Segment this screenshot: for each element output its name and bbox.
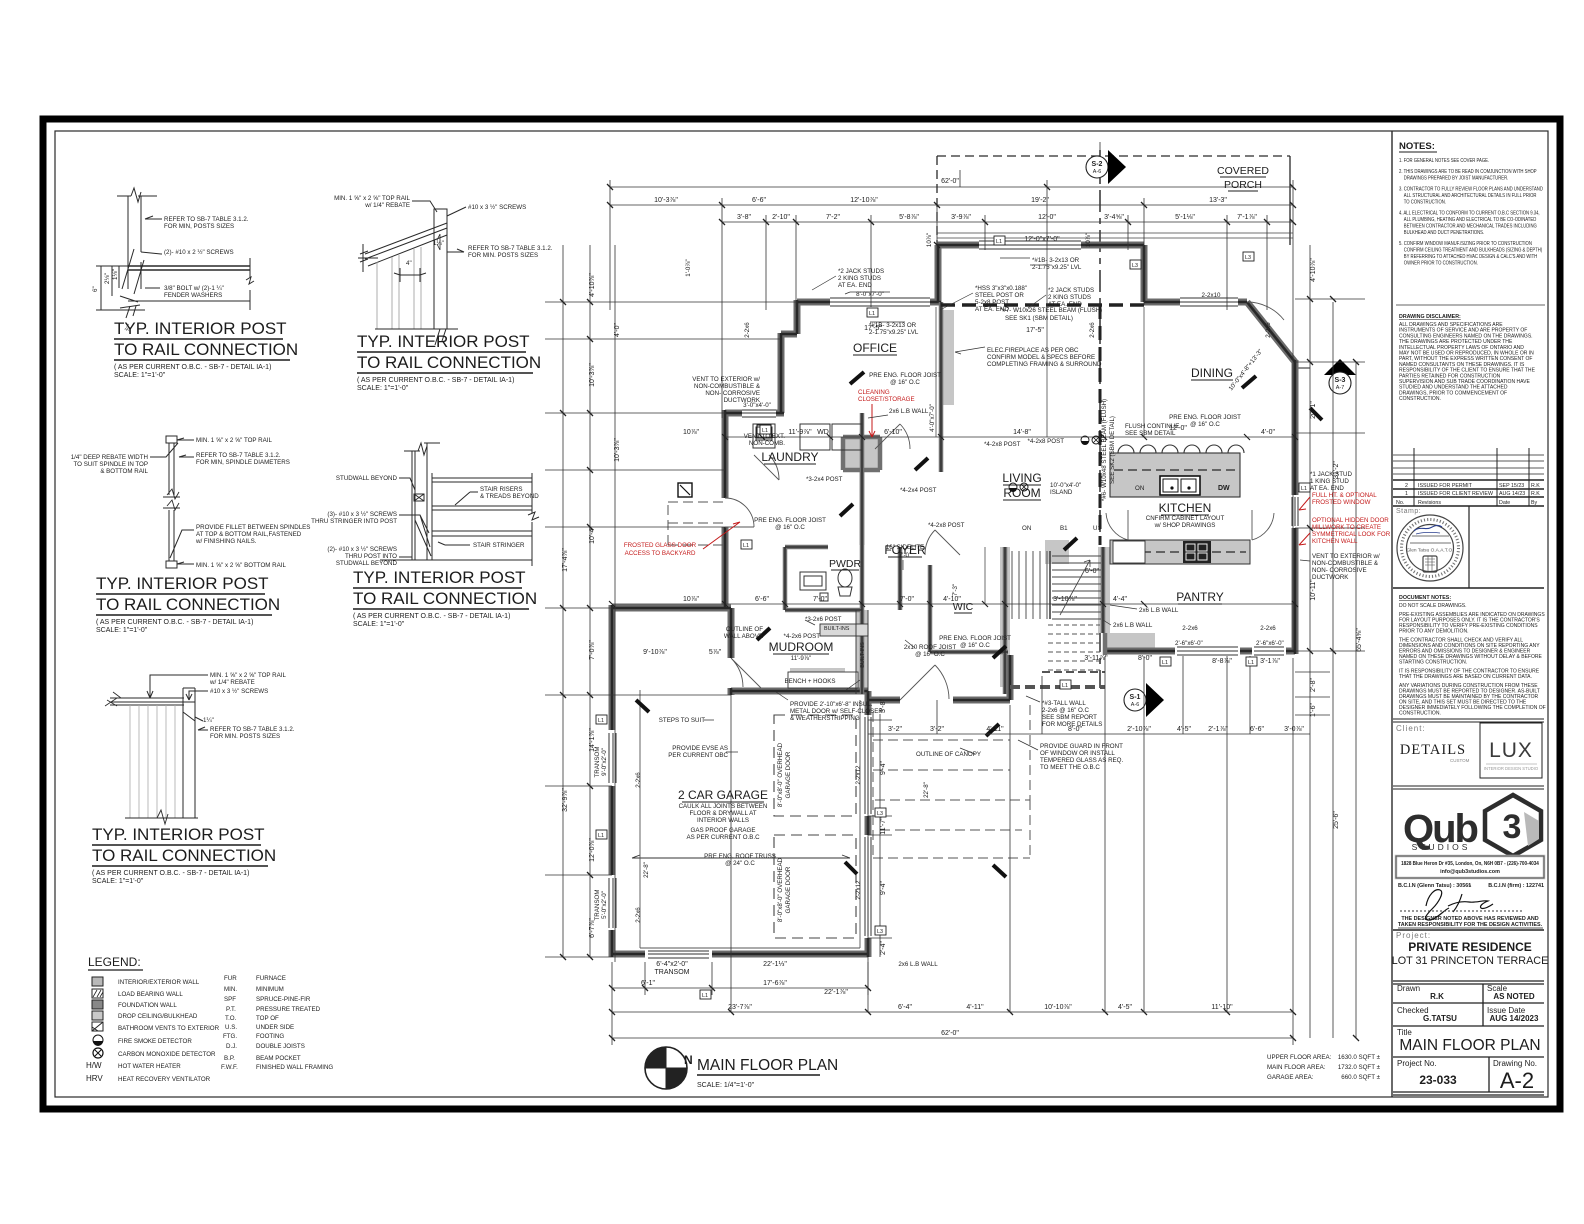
svg-text:F.W.F.: F.W.F. [221,1064,238,1071]
joist direction arrows [636,372,1322,877]
svg-text:NON-COMB.: NON-COMB. [749,440,785,447]
svg-text:P.T.: P.T. [226,1006,236,1013]
svg-text:LOAD BEARING WALL: LOAD BEARING WALL [118,991,183,998]
svg-text:ALL STRUCTURAL AND ARCHITECTUR: ALL STRUCTURAL AND ARCHITECTURAL DETAILS… [1404,193,1537,200]
svg-text:S-2: S-2 [1092,161,1103,168]
interior dim lines [612,245,1295,604]
svg-text:10⅞": 10⅞" [1085,233,1092,247]
svg-text:( AS PER CURRENT O.B.C. - SB-7: ( AS PER CURRENT O.B.C. - SB-7 - DETAIL … [353,613,510,620]
svg-text:*1 JACK STUD: *1 JACK STUD [1310,471,1352,478]
svg-text:2: 2 [1405,483,1408,489]
svg-text:REFER TO SB-7 TABLE 3.1.2.: REFER TO SB-7 TABLE 3.1.2. [468,245,553,252]
svg-text:STEEL POST OR: STEEL POST OR [975,292,1024,299]
svg-text:L1: L1 [1162,660,1168,666]
svg-text:23-033: 23-033 [1419,1073,1457,1087]
svg-text:CUSTOM: CUSTOM [1450,758,1470,763]
svg-text:20'-1": 20'-1" [1310,401,1317,419]
svg-text:PRIOR TO ANY DEMOLITION.: PRIOR TO ANY DEMOLITION. [1399,628,1468,634]
svg-text:PRE ENG. FLOOR JOIST: PRE ENG. FLOOR JOIST [939,635,1011,642]
svg-text:KITCHEN: KITCHEN [1159,501,1212,515]
svg-text:H/W: H/W [86,1061,102,1070]
svg-text:8'-0": 8'-0" [1138,655,1152,662]
fireplace band [856,610,868,694]
svg-text:6'-6": 6'-6" [752,197,766,204]
svg-text:GARAGE AREA:: GARAGE AREA: [1267,1074,1314,1081]
bottom plan title with north arrow [645,1047,693,1089]
svg-text:S-3: S-3 [1335,377,1346,384]
svg-text:OWNER PRIOR TO CONSTRUCTION.: OWNER PRIOR TO CONSTRUCTION. [1404,260,1478,267]
svg-text:PRIVATE RESIDENCE: PRIVATE RESIDENCE [1408,940,1532,954]
svg-text:1¼": 1¼" [203,717,214,724]
svg-text:4'-0"x7'-0": 4'-0"x7'-0" [929,404,936,432]
svg-text:6": 6" [92,286,99,292]
svg-text:U1: U1 [1093,525,1101,532]
svg-text:REFER TO SB-7 TABLE 3.1.2.: REFER TO SB-7 TABLE 3.1.2. [164,216,249,223]
svg-text:MIN.: MIN. [224,986,237,993]
svg-text:*4-2x8 POST: *4-2x8 POST [984,441,1021,448]
svg-text:Drawing No.: Drawing No. [1493,1059,1537,1068]
garage overhead door dashed outlines [774,715,856,938]
smoke detectors [678,425,1100,497]
svg-text:@ 16" O.C: @ 16" O.C [915,651,945,658]
svg-text:12'-0⅞": 12'-0⅞" [589,838,596,862]
svg-text:13'-3": 13'-3" [1209,197,1227,204]
svg-text:@ 24" O.C: @ 24" O.C [725,860,755,867]
svg-text:TO RAIL CONNECTION: TO RAIL CONNECTION [114,340,298,359]
kitchen details [1110,445,1250,564]
svg-text:2. THIS DRAWINGS ARE TO BE REA: 2. THIS DRAWINGS ARE TO BE READ IN COMJU… [1399,169,1537,176]
svg-text:9'-4": 9'-4" [880,881,887,895]
svg-text:AUG 14/2023: AUG 14/2023 [1490,1014,1539,1023]
svg-text:TO CONSTRUCTION.: TO CONSTRUCTION. [1404,199,1446,206]
svg-text:*4-2x8 POST: *4-2x8 POST [928,522,965,529]
svg-text:COVERED: COVERED [1217,165,1269,177]
svg-text:& BOTTOM RAIL: & BOTTOM RAIL [100,468,148,475]
svg-text:9'-10⅞": 9'-10⅞" [643,649,667,656]
svg-text:MIN. 1 ⅝" x 2 ⅝" TOP RAIL: MIN. 1 ⅝" x 2 ⅝" TOP RAIL [210,672,286,679]
svg-text:R.K: R.K [1531,491,1540,497]
detail 3: spindle elevation [150,436,194,568]
svg-text:ON: ON [1022,525,1031,532]
powder fixtures [800,569,852,601]
svg-text:~: ~ [1468,883,1471,889]
svg-text:TO RAIL CONNECTION: TO RAIL CONNECTION [353,589,537,608]
svg-text:2-2x6: 2-2x6 [635,907,642,923]
svg-text:6'-6": 6'-6" [1250,726,1264,733]
svg-text:By: By [1531,500,1538,506]
svg-text:7'-0": 7'-0" [899,552,911,559]
svg-text:BEAM POCKET: BEAM POCKET [256,1055,301,1062]
svg-text:OFFICE: OFFICE [853,341,897,355]
svg-text:PORCH: PORCH [1224,179,1262,191]
svg-text:3. CONTRACTOR TO FULLY REVIEW: 3. CONTRACTOR TO FULLY REVIEW FLOOR PLAN… [1399,186,1543,193]
stair wall band [1098,547,1110,633]
svg-text:2-2x6: 2-2x6 [1260,625,1276,632]
svg-text:BENCH + HOOKS: BENCH + HOOKS [784,678,835,685]
svg-text:SYMMETRICAL LOOK FOR: SYMMETRICAL LOOK FOR [1312,531,1391,538]
svg-text:DRAWINGS PREPARED BY JOIST MAN: DRAWINGS PREPARED BY JOIST MANUFACTURER. [1404,175,1509,182]
svg-text:VENT TO EXTERIOR w/: VENT TO EXTERIOR w/ [692,376,760,383]
svg-text:SEE SK2 (SBM DETAIL): SEE SK2 (SBM DETAIL) [1109,416,1116,484]
svg-text:3: 3 [1503,808,1522,846]
svg-text:OUTLINE OF: OUTLINE OF [726,626,763,633]
svg-text:5-2x8 POST: 5-2x8 POST [975,299,1009,306]
svg-text:4'-0": 4'-0" [614,323,621,337]
svg-text:R.K: R.K [1531,483,1540,489]
svg-text:TO RAIL CONNECTION: TO RAIL CONNECTION [92,846,276,865]
S-2 marker [1086,150,1126,184]
svg-text:T.O.: T.O. [225,1015,237,1022]
svg-text:3'-0⅞": 3'-0⅞" [1284,726,1304,733]
svg-text:Drawn: Drawn [1397,984,1420,993]
svg-text:ALL PLUMBING, HEATING AND ELEC: ALL PLUMBING, HEATING AND ELECTRICAL TO … [1404,217,1537,224]
svg-text:L1: L1 [1301,486,1307,492]
svg-text:2-2x6: 2-2x6 [1089,322,1096,338]
svg-text:5⅞": 5⅞" [709,649,722,656]
svg-text:Glen Tatsu O.A.A.T.O.: Glen Tatsu O.A.A.T.O. [1406,548,1453,554]
svg-text:2-2x12: 2-2x12 [855,880,862,899]
svg-text:*3-2x6 POST: *3-2x6 POST [805,616,842,623]
svg-text:CONSTRUCTION.: CONSTRUCTION. [1399,710,1441,716]
svg-text:TAKEN RESPONSIBILITY FOR THE D: TAKEN RESPONSIBILITY FOR THE DESIGN ACTI… [1398,922,1543,928]
detail 5: post elevation [105,675,208,824]
svg-text:THAT THE DRAWINGS ARE BASED ON: THAT THE DRAWINGS ARE BASED ON CURRENT D… [1399,674,1532,680]
svg-text:17'-5": 17'-5" [1026,327,1044,334]
svg-text:1. FOR GENERAL NOTES SEE COVER: 1. FOR GENERAL NOTES SEE COVER PAGE. [1399,158,1489,165]
svg-text:BUILT-INS: BUILT-INS [824,626,850,632]
svg-text:22'-1⅓": 22'-1⅓" [763,961,787,968]
svg-text:3'-1⅞": 3'-1⅞" [1260,658,1280,665]
svg-text:B.C.I.N (Glenn Tatsu) : 30561: B.C.I.N (Glenn Tatsu) : 30561 [1398,883,1471,889]
svg-text:5'-1⅛": 5'-1⅛" [1175,214,1195,221]
svg-text:MIN. 1 ⅝" x 2 ⅝" BOTTOM RAIL: MIN. 1 ⅝" x 2 ⅝" BOTTOM RAIL [196,562,286,569]
svg-text:660.0 SQFT ±: 660.0 SQFT ± [1341,1074,1380,1081]
svg-text:4'-4": 4'-4" [1113,596,1127,603]
svg-text:5. CONFIRM WINDOW MANUF./SIZIN: 5. CONFIRM WINDOW MANUF./SIZING PRIOR TO… [1399,241,1532,248]
svg-text:TRANSOM: TRANSOM [594,747,601,778]
svg-text:UPPER FLOOR AREA:: UPPER FLOOR AREA: [1267,1054,1332,1061]
svg-text:*#3-TALL WALL: *#3-TALL WALL [1042,700,1086,707]
svg-text:1¼": 1¼" [433,240,444,247]
svg-text:DOUBLE JOISTS: DOUBLE JOISTS [256,1043,305,1050]
svg-text:AUG 14/23: AUG 14/23 [1499,491,1525,497]
svg-text:A-6: A-6 [1093,169,1101,175]
svg-text:SPF: SPF [224,996,236,1003]
svg-text:LUX: LUX [1489,739,1533,762]
svg-text:CLOSET/STORAGE: CLOSET/STORAGE [858,396,915,403]
svg-text:TO SUIT SPINDLE IN TOP: TO SUIT SPINDLE IN TOP [74,461,149,468]
svg-text:10'-11": 10'-11" [1310,579,1317,601]
svg-text:TYP. INTERIOR POST: TYP. INTERIOR POST [353,568,526,587]
svg-text:DINING: DINING [1191,366,1233,380]
black annotation texts [594,233,1380,968]
svg-text:*2 JACK STUDS: *2 JACK STUDS [1048,287,1094,294]
svg-text:FROSTED GLASS DOOR: FROSTED GLASS DOOR [624,542,697,549]
svg-text:AS PER CURRENT O.B.C: AS PER CURRENT O.B.C [686,834,760,841]
svg-text:12'-0": 12'-0" [1169,425,1187,432]
svg-text:L3: L3 [877,929,883,935]
svg-text:THRU POST INTO: THRU POST INTO [345,553,397,560]
svg-text:OPTIONAL HIDDEN DOOR: OPTIONAL HIDDEN DOOR [1312,517,1389,524]
small sublabels [679,515,1225,841]
svg-text:MAIN FLOOR AREA:: MAIN FLOOR AREA: [1267,1064,1326,1071]
svg-text:2'-10": 2'-10" [772,214,790,221]
svg-text:11'-9⅞": 11'-9⅞" [788,429,812,436]
svg-text:22'-8": 22'-8" [643,862,650,878]
svg-text:B1: B1 [1060,525,1068,532]
svg-text:FOUNDATION WALL: FOUNDATION WALL [118,1002,177,1009]
svg-text:9'-4": 9'-4" [880,761,887,775]
svg-text:*HSS 3"x3"x0.188": *HSS 3"x3"x0.188" [975,285,1027,292]
svg-text:COMPLETING FRAMING & SURROUND: COMPLETING FRAMING & SURROUND [987,361,1102,368]
svg-text:TO RAIL CONNECTION: TO RAIL CONNECTION [96,595,280,614]
svg-text:LAUNDRY: LAUNDRY [761,450,818,464]
svg-text:SEP 15/23: SEP 15/23 [1499,483,1524,489]
svg-text:3/8" BOLT w/ (2)-1 ¼": 3/8" BOLT w/ (2)-1 ¼" [164,285,224,292]
svg-text:CNFIRM CABINET LAYOUT: CNFIRM CABINET LAYOUT [1146,515,1225,522]
svg-text:w/ 1/4" REBATE: w/ 1/4" REBATE [364,202,410,209]
interior dims [643,325,1280,996]
svg-text:DO NOT SCALE DRAWINGS.: DO NOT SCALE DRAWINGS. [1399,603,1467,609]
svg-text:65'-4⅝": 65'-4⅝" [1356,628,1363,652]
svg-text:ACCESS TO BACKYARD: ACCESS TO BACKYARD [625,550,696,557]
svg-text:10⅞": 10⅞" [683,429,700,436]
svg-text:VENT TO EXTERIOR w/: VENT TO EXTERIOR w/ [1312,553,1380,560]
svg-text:MAIN FLOOR PLAN: MAIN FLOOR PLAN [697,1057,838,1074]
svg-text:1732.0 SQFT ±: 1732.0 SQFT ± [1338,1064,1381,1071]
svg-text:3'-11⅞": 3'-11⅞" [1084,655,1108,662]
svg-text:PROVIDE FILLET BETWEEN SPINDLE: PROVIDE FILLET BETWEEN SPINDLES [196,524,310,531]
garage right dim col [868,714,892,957]
svg-text:L1: L1 [598,833,604,839]
svg-text:8'-0"x8'-0" OVERHEAD: 8'-0"x8'-0" OVERHEAD [777,742,784,807]
svg-text:ISLAND: ISLAND [1050,489,1073,496]
svg-text:4'-11": 4'-11" [986,726,1004,733]
window bands (white with thin lines) [608,240,1300,959]
svg-text:TYP. INTERIOR POST: TYP. INTERIOR POST [92,825,265,844]
mudroom bench [1110,453,1240,497]
svg-text:2'-10⅞": 2'-10⅞" [1127,726,1151,733]
svg-text:6'-4"x2'-0": 6'-4"x2'-0" [656,961,688,968]
svg-text:SCALE: 1"=1'-0": SCALE: 1"=1'-0" [92,878,144,885]
svg-text:FROSTED WINDOW: FROSTED WINDOW [1312,499,1371,506]
svg-text:METAL DOOR w/ SELF-CLOSER: METAL DOOR w/ SELF-CLOSER [790,708,883,715]
svg-text:DETAILS: DETAILS [1400,742,1466,758]
sheet outer black border [43,119,1560,1109]
svg-text:*3-2x4 POST: *3-2x4 POST [806,476,843,483]
svg-text:4": 4" [406,260,412,267]
svg-text:SCALE: 1"=1'-0": SCALE: 1"=1'-0" [353,621,405,628]
svg-text:TO RAIL CONNECTION: TO RAIL CONNECTION [357,353,541,372]
svg-text:11'-10": 11'-10" [1211,1004,1233,1011]
svg-text:2-2x12: 2-2x12 [855,765,862,784]
svg-text:Date: Date [1499,500,1510,506]
svg-text:ELEC.FIREPLACE AS PER OBC: ELEC.FIREPLACE AS PER OBC [987,347,1079,354]
svg-text:TEMPERED GLASS AS REQ.: TEMPERED GLASS AS REQ. [1040,757,1123,764]
svg-text:L1: L1 [869,311,875,317]
svg-text:11'-7": 11'-7" [880,817,887,835]
detail 2: typ interior post to rail connection (raked rail) [358,201,477,345]
svg-text:INTERIOR DESIGN STUDIO: INTERIOR DESIGN STUDIO [1484,766,1539,771]
svg-text:7'-3": 7'-3" [952,584,959,596]
svg-text:Project:: Project: [1396,931,1431,940]
svg-text:& WEATHERSTRIPPING: & WEATHERSTRIPPING [790,715,860,722]
svg-text:25'-6": 25'-6" [1333,811,1340,829]
svg-text:A-7: A-7 [1336,385,1344,391]
exterior wall centerlines [612,245,1295,957]
svg-text:DRAWING DISCLAIMER:: DRAWING DISCLAIMER: [1399,314,1461,320]
svg-text:2-2x6: 2-2x6 [1265,322,1272,338]
svg-text:FOR MIN, POSTS SIZES: FOR MIN, POSTS SIZES [164,223,234,230]
svg-text:STEPS TO SUIT: STEPS TO SUIT [659,717,705,724]
svg-text:6'-1": 6'-1" [641,980,655,987]
svg-text:SCALE: 1/4"=1'-0": SCALE: 1/4"=1'-0" [697,1082,755,1089]
dimension lines: top rows [610,142,1293,651]
porch roof edge lines [937,233,1293,238]
svg-text:7'-2": 7'-2" [826,214,840,221]
svg-text:PER CURRENT OBC: PER CURRENT OBC [668,752,728,759]
svg-text:2x6 L.B WALL: 2x6 L.B WALL [1139,607,1179,614]
svg-text:KITCHEN WALL: KITCHEN WALL [1312,538,1358,545]
svg-text:MIN. 1 ⅝" x 2 ⅝" TOP RAIL: MIN. 1 ⅝" x 2 ⅝" TOP RAIL [196,437,272,444]
svg-text:FUR: FUR [224,975,237,982]
svg-text:2x6 L.B WALL: 2x6 L.B WALL [1113,622,1153,629]
L1 marker boxes [596,236,1310,999]
svg-text:4'-0": 4'-0" [1261,429,1275,436]
svg-text:7'-0": 7'-0" [813,596,827,603]
svg-text:A-2: A-2 [1500,1068,1534,1093]
roof truss span line [632,855,850,858]
svg-text:6'-6": 6'-6" [755,596,769,603]
cleaning closet [941,310,954,405]
tick marks top row [560,184,1359,1041]
svg-text:17'-4⅞": 17'-4⅞" [562,548,569,572]
svg-text:10'-3⅞": 10'-3⅞" [614,438,621,462]
svg-text:6'-4": 6'-4" [898,1004,912,1011]
svg-text:9'-0"x2'-0": 9'-0"x2'-0" [601,748,608,776]
svg-text:TO MEET THE O.B.C: TO MEET THE O.B.C [1040,764,1100,771]
svg-text:( AS PER CURRENT O.B.C. - SB-7: ( AS PER CURRENT O.B.C. - SB-7 - DETAIL … [96,619,253,626]
svg-text:FINISHED WALL FRAMING: FINISHED WALL FRAMING [256,1064,333,1071]
svg-text:2x6 L.B WALL: 2x6 L.B WALL [898,961,938,968]
svg-text:PRESSURE TREATED: PRESSURE TREATED [256,1006,321,1013]
svg-text:2'-6"x6'-0": 2'-6"x6'-0" [1256,640,1284,647]
laundry appliances [753,424,862,450]
svg-text:19'-2": 19'-2" [1031,197,1049,204]
svg-text:HRV: HRV [86,1074,103,1083]
svg-text:(2)- #10 x 3 ½" SCREWS: (2)- #10 x 3 ½" SCREWS [327,546,397,553]
svg-text:GAS PROOF GARAGE: GAS PROOF GARAGE [691,827,756,834]
svg-text:L1: L1 [743,543,749,549]
svg-text:*2 JACK STUDS: *2 JACK STUDS [838,268,884,275]
svg-text:( AS PER CURRENT O.B.C. - SB-7: ( AS PER CURRENT O.B.C. - SB-7 - DETAIL … [92,870,249,877]
svg-text:REFER TO SB-7 TABLE 3.1.2.: REFER TO SB-7 TABLE 3.1.2. [196,452,281,459]
svg-text:STARTING CONSTRUCTION.: STARTING CONSTRUCTION. [1399,659,1467,665]
svg-text:1: 1 [1405,491,1408,497]
svg-text:NON- CORROSIVE: NON- CORROSIVE [1312,567,1367,574]
svg-text:TOP OF: TOP OF [256,1015,279,1022]
S-3 marker [1296,359,1356,394]
svg-text:CLEANING: CLEANING [858,389,890,396]
svg-text:*4-2x4 POST: *4-2x4 POST [900,487,937,494]
signature [1426,890,1493,920]
svg-text:L1: L1 [598,718,604,724]
right dim columns [1295,245,1365,1038]
svg-text:WALL ABOVE: WALL ABOVE [724,633,763,640]
top dimension labels [654,178,1257,243]
svg-text:7'-0": 7'-0" [900,596,914,603]
svg-text:4'-5": 4'-5" [1118,1004,1132,1011]
svg-text:Client:: Client: [1396,724,1426,733]
svg-text:2'-4": 2'-4" [880,941,887,955]
svg-text:TYP. INTERIOR POST: TYP. INTERIOR POST [96,574,269,593]
svg-text:PROVIDE 2'-10"x6'-8" INSUL.: PROVIDE 2'-10"x6'-8" INSUL. [790,701,873,708]
svg-text:10'-10⅞": 10'-10⅞" [1044,1004,1072,1011]
svg-text:REFER TO SB-7 TABLE 3.1.2.: REFER TO SB-7 TABLE 3.1.2. [210,726,295,733]
svg-text:12'-0": 12'-0" [1038,214,1056,221]
svg-text:CONSTRUCTION.: CONSTRUCTION. [1399,396,1441,402]
svg-text:DW: DW [1218,485,1230,492]
svg-text:FIRE SMOKE DETECTOR: FIRE SMOKE DETECTOR [118,1038,192,1045]
svg-text:AS NOTED: AS NOTED [1493,992,1535,1001]
svg-text:ON: ON [1135,485,1144,492]
svg-text:@ 16" O.C: @ 16" O.C [775,524,805,531]
svg-text:ISSUED FOR CLIENT REVIEW: ISSUED FOR CLIENT REVIEW [1418,491,1493,497]
svg-text:FOR MIN. POSTS SIZES: FOR MIN. POSTS SIZES [468,252,538,259]
canopy dashed outline at entry [668,502,1030,858]
svg-text:10'-3⅞": 10'-3⅞" [589,363,596,387]
gray interior fills [790,310,1250,694]
svg-text:Title: Title [1397,1028,1412,1037]
svg-text:FOR MORE DETAILS: FOR MORE DETAILS [1042,721,1102,728]
svg-text:3'-2": 3'-2" [930,726,944,733]
svg-text:*#7- W10x26 STEEL BEAM (FLUSH): *#7- W10x26 STEEL BEAM (FLUSH) [1000,307,1102,314]
svg-text:(2)- #10 x 2 ½" SCREWS: (2)- #10 x 2 ½" SCREWS [164,249,234,256]
svg-text:CAULK ALL JOINTS BETWEEN: CAULK ALL JOINTS BETWEEN [679,803,768,810]
svg-text:12'-10⅞": 12'-10⅞" [850,197,878,204]
svg-text:info@qub3studios.com: info@qub3studios.com [1440,869,1500,875]
svg-text:*#6- W10x48 STEEL BEAM (FLUSH): *#6- W10x48 STEEL BEAM (FLUSH) [1101,399,1108,501]
Qub3 logo [1403,795,1541,856]
svg-text:NON- CORROSIVE: NON- CORROSIVE [705,390,760,397]
svg-text:L1: L1 [702,993,708,999]
svg-text:6'-0": 6'-0" [1085,568,1099,575]
svg-text:2'-1⅞": 2'-1⅞" [1208,726,1228,733]
svg-text:CONFIRM MODEL & SPECS BEFORE: CONFIRM MODEL & SPECS BEFORE [987,354,1095,361]
bottom dimension labels [641,726,1304,1037]
svg-text:11'-9⅞": 11'-9⅞" [791,655,811,662]
svg-text:5'-0"x2'-0": 5'-0"x2'-0" [601,891,608,919]
garage interior finish lines [640,690,860,948]
svg-text:AT EA. END: AT EA. END [838,282,872,289]
detail 1: typ interior post to rail connection (plan) [96,188,254,318]
svg-text:PROVIDE GUARD IN FRONT: PROVIDE GUARD IN FRONT [1040,743,1123,750]
svg-text:TRANSOM: TRANSOM [655,969,690,976]
svg-text:BATHROOM VENTS TO EXTERIOR: BATHROOM VENTS TO EXTERIOR [118,1025,220,1032]
svg-text:Project No.: Project No. [1397,1059,1437,1068]
svg-text:10'-0"x4'-0": 10'-0"x4'-0" [1050,482,1081,489]
kitchen counter [1045,540,1069,564]
svg-text:INTERIOR WALLS: INTERIOR WALLS [697,817,749,824]
svg-text:7'-1⅞": 7'-1⅞" [1237,214,1257,221]
svg-text:3'-8": 3'-8" [737,214,751,221]
svg-text:1/4" DEEP REBATE WIDTH: 1/4" DEEP REBATE WIDTH [71,454,148,461]
svg-text:NOTES:: NOTES: [1399,141,1435,152]
S-1 marker [1124,683,1164,717]
svg-text:FOOTING: FOOTING [256,1033,284,1040]
svg-text:GARAGE DOOR: GARAGE DOOR [785,866,792,913]
svg-text:FOR MIN. POSTS SIZES: FOR MIN. POSTS SIZES [210,733,280,740]
